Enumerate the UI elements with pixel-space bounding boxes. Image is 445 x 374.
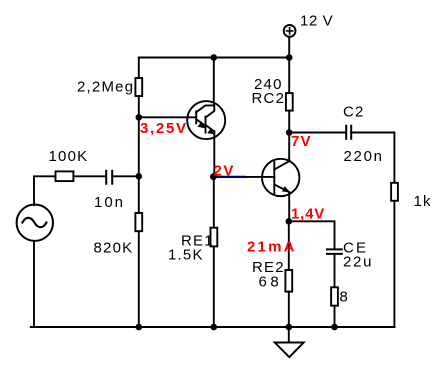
svg-text:1.5K: 1.5K (168, 247, 204, 264)
wire Q2 base (245, 176, 274, 178)
node 2V emitter junction (210, 173, 217, 180)
wire 2,2Meg bottom (138, 96, 140, 117)
svg-text:12 V: 12 V (300, 13, 333, 30)
svg-text:7V: 7V (291, 133, 312, 150)
wire RE1 bottom (213, 246, 215, 327)
wire 1,4V to CE (289, 221, 335, 248)
svg-text:3,25V: 3,25V (140, 120, 188, 137)
wire top rail (139, 57, 289, 59)
node base divider junction (136, 114, 143, 121)
wire CE to 8 (334, 254, 336, 287)
wire Q2 emitter (288, 192, 290, 221)
wire RE2 bottom (288, 292, 290, 327)
wire ground stub (288, 327, 290, 343)
wire 7V to C2 (289, 132, 346, 134)
node top rail Q1 junction (211, 54, 218, 61)
node rail 820K (136, 324, 143, 331)
svg-text:220n: 220n (344, 148, 384, 165)
svg-text:68: 68 (259, 274, 283, 291)
resistor RE2 68 (285, 270, 292, 292)
wire 100K to C1 (73, 175, 106, 177)
capacitor C1 10n (106, 171, 112, 184)
svg-text:1k: 1k (414, 193, 432, 210)
resistor RE1 1.5K (211, 228, 218, 247)
svg-text:100K: 100K (49, 148, 89, 165)
svg-text:2,2Meg: 2,2Meg (77, 79, 134, 96)
node 7V collector junction (286, 129, 293, 136)
wire RE2 top (288, 221, 290, 270)
resistor RL 1k (391, 183, 398, 201)
node rail RE1 (211, 324, 218, 331)
svg-text:22u: 22u (343, 253, 373, 270)
wire 1k bottom (393, 201, 395, 327)
resistor R3 100K (56, 171, 74, 181)
capacitor C2 220n (346, 126, 351, 139)
wire Q1 collector (213, 58, 215, 106)
node top rail supply junction (286, 54, 293, 61)
node rail CE branch (331, 324, 338, 331)
svg-text:8: 8 (340, 289, 350, 306)
node rail ground junction (286, 324, 293, 331)
wire Q1 base (139, 116, 196, 118)
wire C2 to load (351, 133, 394, 183)
wire 8 bottom (334, 306, 336, 327)
node input coupling junction (136, 173, 143, 180)
wire 2,2Meg top drop (138, 58, 140, 79)
svg-text:2V: 2V (214, 162, 235, 179)
supply +12V symbol (284, 25, 296, 37)
wire 820K top (138, 176, 140, 213)
svg-text:820K: 820K (94, 240, 134, 257)
wire net 2V highlighted (213, 176, 245, 178)
wire Q1 emitter (213, 132, 215, 177)
svg-text:1,4V: 1,4V (291, 206, 325, 223)
resistor R1 2,2Meg (135, 78, 142, 96)
wire supply drop (288, 37, 290, 58)
transistor Q1 (187, 101, 225, 139)
svg-text:C2: C2 (343, 104, 365, 121)
wire RC2 bottom (288, 111, 290, 133)
wire divider to input node (138, 117, 140, 176)
transistor Q2 (262, 133, 299, 197)
wire C1 to divider node (112, 175, 138, 177)
node 1,4V emitter junction (286, 218, 293, 225)
ground (275, 343, 304, 358)
wire AC source bottom (33, 241, 35, 327)
wire AC source top (34, 176, 56, 205)
wire RC2 top (288, 58, 290, 94)
svg-text:RC2: RC2 (252, 90, 286, 107)
svg-text:10n: 10n (94, 194, 125, 211)
svg-text:21mA: 21mA (247, 239, 297, 256)
wire RE1 top (213, 177, 215, 228)
wire 820K bottom (138, 231, 140, 327)
resistor R2 820K (135, 213, 142, 231)
source V1 AC input (17, 205, 53, 241)
resistor RC2 240 (286, 93, 293, 111)
resistor R8 8 (331, 287, 338, 305)
capacitor CE 22u (327, 249, 342, 254)
wire bottom rail (31, 326, 395, 328)
